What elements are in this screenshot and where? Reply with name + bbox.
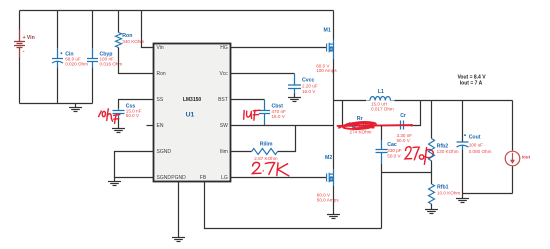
- svg-text:L1: L1: [378, 89, 384, 95]
- capacitor Cbyp: [87, 48, 98, 68]
- label Cac: [387, 142, 401, 158]
- wire Rr to Cr: [370, 125, 401, 127]
- annotation handwritten 1uF: [244, 110, 260, 120]
- wire output bottom bus: [463, 193, 513, 195]
- capacitor Cvcc: [288, 74, 301, 94]
- svg-text:SW: SW: [220, 123, 228, 129]
- wire Ron to IC pin: [119, 48, 154, 74]
- wire FB node to Rfb junction: [382, 172, 432, 174]
- resistor Rfb1: [429, 184, 435, 204]
- svg-text:Rilim: Rilim: [260, 141, 273, 147]
- label M2: [317, 155, 339, 202]
- resistor Rfb2: [429, 139, 435, 161]
- wire Vin battery bottom lead: [19, 58, 21, 104]
- svg-text:50.0 V: 50.0 V: [397, 138, 411, 143]
- svg-text:Ron: Ron: [157, 71, 166, 77]
- capacitor Cac: [376, 140, 388, 164]
- svg-text:PGND: PGND: [171, 175, 186, 181]
- wire Ilim lead left: [231, 151, 252, 153]
- svg-text:100 Amps: 100 Amps: [316, 68, 337, 73]
- wire SW bus: [231, 125, 334, 127]
- label Rfb1: [437, 185, 460, 196]
- wire M1 source to M2 drain: [333, 59, 335, 169]
- svg-text:50.0 V: 50.0 V: [126, 113, 140, 118]
- svg-text:FB: FB: [200, 175, 207, 181]
- svg-text:Cr: Cr: [400, 113, 406, 119]
- annotation handwritten 2.7K: [252, 162, 288, 175]
- wire SW node to L1: [334, 100, 367, 102]
- svg-text:+: +: [23, 35, 26, 41]
- svg-text:50.0 Amps: 50.0 Amps: [317, 197, 339, 202]
- svg-text:Vin: Vin: [157, 45, 164, 51]
- svg-text:100 uF: 100 uF: [469, 143, 483, 148]
- svg-text:EN: EN: [157, 123, 164, 129]
- wire Rr-Cr node to Cac: [381, 126, 383, 141]
- label Ron: [122, 33, 144, 44]
- wire Cin top lead: [57, 11, 59, 49]
- wire SGND pins to ground: [115, 152, 154, 178]
- battery V1 Vin: [14, 30, 25, 59]
- label Rilim: [254, 141, 277, 161]
- annotation handwritten 10nF: [99, 109, 120, 124]
- svg-text:2.87 KOhm: 2.87 KOhm: [254, 156, 277, 161]
- label Cbyp: [100, 52, 123, 67]
- wire L1 to Vout bus: [395, 100, 513, 102]
- svg-text:SS: SS: [157, 97, 164, 103]
- wire M1 drain from rail: [333, 11, 335, 40]
- label Cin: [61, 52, 89, 67]
- label M1: [316, 28, 337, 74]
- wire Cr to Vout bus: [404, 101, 421, 126]
- label Rr: [350, 116, 372, 134]
- label Css: [126, 103, 142, 118]
- wire Cout to bottom bus: [462, 150, 464, 194]
- svg-text:16.0 V: 16.0 V: [272, 114, 286, 119]
- svg-text:2.20 uF: 2.20 uF: [302, 84, 318, 89]
- wire Vout bus to Cout: [462, 101, 464, 143]
- inductor L1: [366, 97, 395, 101]
- node Vout output note: [457, 75, 486, 87]
- label Rfb2: [437, 144, 459, 154]
- label Cr: [397, 113, 413, 143]
- wire Rfb2 to FB node: [431, 161, 433, 173]
- svg-text:50.0 V: 50.0 V: [387, 153, 401, 158]
- svg-text:M1: M1: [324, 28, 331, 34]
- annotation scribble over Rr: [338, 122, 413, 129]
- svg-text:Cout: Cout: [469, 135, 481, 141]
- ground PGND: [172, 238, 185, 242]
- svg-text:10.0 KOhm: 10.0 KOhm: [437, 190, 460, 195]
- ground Rfb1: [425, 204, 438, 214]
- svg-text:U1: U1: [186, 111, 195, 118]
- ground Cout: [456, 194, 469, 203]
- label Cout: [464, 134, 491, 154]
- svg-text:0.020 Ohm: 0.020 Ohm: [65, 61, 88, 66]
- ground M2: [327, 215, 340, 219]
- svg-text:0.017 Ohm: 0.017 Ohm: [371, 106, 394, 111]
- wire Iout bottom lead: [512, 166, 514, 193]
- label Vin: [23, 35, 35, 55]
- wire rail to Vin pin: [142, 11, 154, 48]
- svg-text:SGND: SGND: [157, 175, 172, 181]
- svg-text:0.080 Ohm: 0.080 Ohm: [469, 149, 492, 154]
- wire FB trace: [205, 182, 382, 229]
- capacitor Cout: [457, 142, 469, 150]
- wire Cin bottom lead: [57, 68, 59, 104]
- wire Vout bus to Rfb2: [431, 101, 433, 139]
- wire BST to Cbst: [231, 99, 265, 101]
- capacitor Cin: [52, 48, 63, 68]
- svg-text:SGND: SGND: [157, 149, 172, 155]
- svg-text:Vin: Vin: [27, 35, 35, 41]
- svg-text:130 KOhm: 130 KOhm: [437, 149, 459, 154]
- label U1 LM3150: [183, 97, 202, 118]
- op-amp U1 LM3150 IC body: [154, 44, 231, 182]
- annotation handwritten 270p: [405, 147, 433, 164]
- ground Css: [112, 118, 125, 133]
- wire Cac to FB node: [381, 164, 383, 229]
- svg-text:Cvcc: Cvcc: [302, 78, 315, 84]
- label Cvcc: [302, 78, 318, 95]
- resistor Ron: [116, 33, 122, 48]
- ground input section: [69, 104, 82, 112]
- wire Iout top lead: [512, 101, 514, 151]
- svg-text:Vcc: Vcc: [219, 71, 228, 77]
- transistor M2: [327, 169, 334, 186]
- pin stub EN: [147, 125, 154, 127]
- wire Ron top lead: [118, 11, 120, 33]
- wire Rilim to SW: [278, 126, 296, 152]
- svg-text:16.0 V: 16.0 V: [302, 89, 316, 94]
- svg-text:Iout = 7 A: Iout = 7 A: [460, 80, 483, 86]
- wire input bottom bus: [20, 103, 93, 105]
- wire PGND stub down: [178, 182, 180, 238]
- wire Vcc to Cvcc: [231, 73, 295, 75]
- svg-text:-: -: [23, 48, 25, 54]
- wire Cbyp bottom lead: [92, 68, 94, 104]
- current source Iout: [505, 151, 520, 166]
- wire top rail Vin bus: [20, 10, 334, 12]
- svg-text:274 KOhm: 274 KOhm: [350, 130, 372, 135]
- svg-text:M2: M2: [325, 155, 332, 161]
- wire LG to M2 gate: [231, 177, 327, 179]
- transistor M1: [327, 40, 334, 60]
- wire FB node to Rfb1: [431, 173, 433, 185]
- svg-text:Ilim: Ilim: [220, 149, 228, 155]
- wire Rr branch down: [343, 101, 349, 126]
- label L1: [371, 89, 394, 112]
- wire SS to Css: [119, 100, 154, 109]
- resistor Rr: [348, 123, 370, 129]
- svg-text:HG: HG: [220, 45, 228, 51]
- wire Vin battery top lead: [19, 11, 21, 30]
- svg-text:LM3150: LM3150: [183, 97, 202, 103]
- ground SGND: [108, 178, 121, 186]
- resistor Rilim: [252, 149, 278, 155]
- wire M2 source to ground: [333, 186, 335, 215]
- svg-text:BST: BST: [218, 97, 228, 103]
- capacitor Cr: [401, 121, 404, 130]
- ground Cvcc: [288, 94, 301, 102]
- wire Cbyp top lead: [92, 11, 94, 49]
- wire HG to M1 gate: [231, 47, 327, 49]
- capacitor Css: [113, 108, 125, 118]
- label Cbst: [272, 104, 286, 119]
- svg-text:LG: LG: [221, 175, 228, 181]
- svg-text:Iout: Iout: [522, 155, 531, 160]
- capacitor Cbst: [259, 100, 270, 126]
